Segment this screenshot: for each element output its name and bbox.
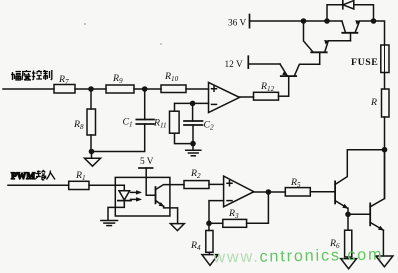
svg-text:36 V: 36 V bbox=[228, 19, 246, 29]
svg-text:PWM: PWM bbox=[11, 172, 35, 182]
svg-text:R: R bbox=[370, 97, 377, 108]
svg-text:www.cntronics.com: www.cntronics.com bbox=[212, 246, 383, 267]
svg-text:5 V: 5 V bbox=[140, 157, 154, 167]
svg-text:FUSE: FUSE bbox=[351, 57, 378, 68]
svg-text:12 V: 12 V bbox=[225, 60, 243, 70]
